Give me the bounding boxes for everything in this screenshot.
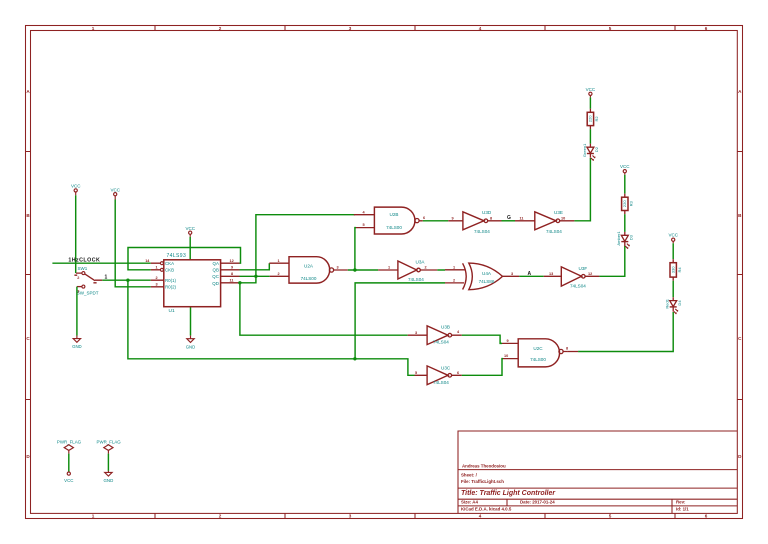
svg-text:74LS00: 74LS00: [301, 276, 317, 281]
svg-text:1: 1: [278, 259, 280, 263]
svg-text:D3: D3: [629, 234, 634, 240]
svg-text:KiCad E.D.A. kicad 4.0.5: KiCad E.D.A. kicad 4.0.5: [461, 507, 512, 512]
svg-text:220: 220: [622, 200, 627, 208]
gate U2A 74LS00 NAND: [269, 257, 348, 283]
svg-text:VCC: VCC: [185, 226, 195, 231]
svg-text:R3: R3: [628, 200, 633, 206]
svg-text:1HzCLOCK: 1HzCLOCK: [68, 258, 100, 264]
svg-text:U4A: U4A: [482, 271, 492, 276]
svg-text:5: 5: [609, 26, 612, 31]
svg-text:13: 13: [549, 272, 553, 276]
wire VCC to R4: [672, 243, 674, 259]
svg-text:10: 10: [561, 216, 565, 220]
svg-text:6: 6: [457, 371, 459, 375]
inverter U3A 74LS04: [378, 260, 437, 283]
node junction QD: [238, 281, 241, 284]
svg-text:74LS04: 74LS04: [433, 339, 449, 344]
svg-text:2: 2: [278, 272, 280, 276]
svg-text:Andreas Theodosiou: Andreas Theodosiou: [462, 463, 506, 468]
gate U2C 74LS00 NAND: [502, 339, 568, 367]
ground GND #PWR10 (flag): [104, 471, 114, 483]
svg-text:Date: 2017-01-24: Date: 2017-01-24: [520, 499, 555, 504]
svg-text:Red1: Red1: [665, 298, 670, 308]
svg-text:A: A: [528, 271, 532, 277]
wire SW1 throw to GND: [76, 287, 78, 336]
svg-text:2: 2: [425, 266, 427, 270]
svg-text:5: 5: [609, 514, 612, 519]
svg-text:4: 4: [479, 26, 482, 31]
svg-text:2: 2: [156, 276, 158, 280]
resistor R2 220: [587, 109, 599, 129]
svg-text:VCC: VCC: [71, 184, 81, 189]
svg-text:SW1: SW1: [78, 266, 88, 271]
wire U1 pin 10 to GND: [190, 307, 192, 336]
LED D3 Amber1: [616, 231, 633, 249]
svg-text:330: 330: [671, 266, 676, 274]
wire XOR out, label A: [519, 275, 543, 277]
resistor R3 220: [622, 194, 634, 215]
svg-text:Rev:: Rev:: [676, 499, 686, 504]
svg-text:10: 10: [504, 354, 508, 358]
node junction bottom row: [353, 357, 356, 360]
wire tap up to U2B pin5: [355, 228, 356, 270]
svg-text:R2: R2: [594, 116, 599, 122]
wire U3F out to amber LED chain: [599, 246, 624, 276]
switch SW1 SW_SPDT: [74, 266, 107, 295]
power VCC #PWR07 amber chain: [620, 164, 630, 175]
svg-text:1: 1: [156, 265, 158, 269]
svg-text:R0(2): R0(2): [165, 285, 177, 290]
svg-text:VCC: VCC: [620, 164, 630, 169]
svg-text:12: 12: [588, 272, 592, 276]
wire PWR_FLAG to GND: [107, 454, 109, 471]
svg-text:GND: GND: [104, 478, 114, 483]
flag PWR_FLAG #FLG02: [97, 440, 122, 454]
svg-text:U3A: U3A: [416, 260, 426, 265]
power VCC #PWR04 above U1: [185, 226, 195, 237]
svg-text:220: 220: [588, 115, 593, 123]
node junction QC branch: [254, 275, 257, 278]
inverter U3C 74LS04: [415, 365, 462, 385]
ground GND #PWR05 below U1: [186, 336, 196, 350]
svg-text:PWR_FLAG: PWR_FLAG: [57, 440, 82, 445]
svg-text:D4: D4: [677, 300, 682, 306]
wire U2B out to U3D: [423, 220, 449, 222]
svg-text:2: 2: [77, 276, 79, 280]
svg-text:9: 9: [231, 265, 233, 269]
flag PWR_FLAG #FLG01: [57, 440, 82, 454]
svg-text:11: 11: [230, 278, 234, 282]
svg-text:74LS04: 74LS04: [570, 283, 586, 288]
svg-text:Size: A4: Size: A4: [461, 499, 478, 504]
svg-text:GND: GND: [186, 344, 196, 349]
wire R3 to D3: [624, 214, 626, 232]
svg-text:R0(1): R0(1): [165, 278, 177, 283]
svg-text:CKA: CKA: [165, 261, 174, 266]
wire QD down to U3B input: [240, 283, 408, 335]
wire SW1 common to R0(1): [102, 279, 151, 281]
svg-text:QC: QC: [212, 274, 219, 279]
wire U3C out to U2C pin10: [462, 359, 503, 376]
gate U2B 74LS00 NAND: [354, 207, 425, 234]
svg-text:1: 1: [92, 514, 95, 519]
svg-text:U3B: U3B: [441, 325, 450, 330]
svg-text:U3F: U3F: [579, 266, 588, 271]
node junction SW/R0(1): [126, 279, 129, 282]
svg-text:8: 8: [490, 216, 492, 220]
svg-text:1: 1: [388, 266, 390, 270]
svg-text:Amber1: Amber1: [616, 231, 621, 246]
svg-text:VCC: VCC: [110, 187, 120, 192]
svg-text:Sheet: /: Sheet: /: [461, 473, 478, 478]
wire U3B out to U2C pin9: [462, 335, 502, 343]
svg-text:File: TrafficLight.sch: File: TrafficLight.sch: [461, 479, 504, 484]
svg-text:3: 3: [349, 514, 352, 519]
power VCC #PWR01: [71, 184, 81, 196]
wire VCC to R3: [624, 175, 626, 194]
svg-text:U2A: U2A: [304, 264, 314, 269]
svg-text:VCC: VCC: [668, 233, 678, 238]
svg-text:3: 3: [511, 272, 513, 276]
svg-text:QD: QD: [212, 281, 219, 286]
svg-text:2: 2: [453, 279, 455, 283]
svg-text:QA: QA: [213, 261, 219, 266]
inverter U3B 74LS04: [408, 325, 462, 345]
svg-text:6: 6: [705, 514, 708, 519]
svg-text:QB: QB: [213, 268, 219, 273]
LED D2 Green1: [582, 143, 599, 161]
svg-text:8: 8: [231, 272, 233, 276]
wire U3E out to green LED chain: [574, 158, 590, 221]
wire QA feedback loop to CKB: [128, 248, 241, 270]
svg-text:8: 8: [566, 347, 568, 351]
svg-text:6: 6: [705, 26, 708, 31]
svg-text:R4: R4: [677, 267, 682, 273]
wire QC to U2A pin2: [240, 275, 270, 277]
wire PWR_FLAG to VCC: [68, 454, 70, 472]
wire XOR pin2 feed: [355, 283, 445, 359]
IC U1 74LS93 counter: [145, 253, 239, 314]
svg-text:3: 3: [337, 266, 339, 270]
power VCC #PWR09 (flag): [64, 472, 73, 483]
wire QB to U2A pin1: [240, 263, 270, 270]
gate U4A 74LS86 XOR: [445, 263, 519, 290]
svg-text:SW_SPDT: SW_SPDT: [77, 291, 99, 296]
svg-text:U3D: U3D: [482, 210, 492, 215]
svg-text:1: 1: [453, 265, 455, 269]
wire QC up to U2B pin4: [256, 215, 355, 277]
svg-text:3: 3: [349, 26, 352, 31]
svg-text:G: G: [507, 215, 511, 221]
svg-text:GND: GND: [72, 344, 82, 349]
power VCC #PWR08 red chain: [668, 233, 678, 244]
svg-text:U3E: U3E: [554, 210, 563, 215]
svg-text:VCC: VCC: [586, 87, 596, 92]
wire VCC to U1 pin 5: [189, 237, 191, 260]
svg-text:4: 4: [479, 514, 482, 519]
svg-text:6: 6: [423, 216, 425, 220]
svg-text:Green1: Green1: [582, 143, 587, 157]
svg-text:2: 2: [219, 26, 222, 31]
wire VCC to SW1 throw: [75, 195, 77, 273]
wire 1HzCLOCK: [52, 262, 150, 264]
wire U3D out, label G: [502, 220, 516, 222]
svg-text:Id: 1/1: Id: 1/1: [676, 506, 689, 511]
node junction U2A out / U2B pin5 tap: [353, 268, 356, 271]
inverter U3E 74LS04: [515, 210, 574, 234]
svg-text:1: 1: [92, 26, 95, 31]
power VCC #PWR06 green chain: [586, 87, 596, 98]
svg-text:74LS04: 74LS04: [433, 380, 449, 385]
wire VCC to R2: [589, 97, 591, 108]
LED D4 Red1: [665, 297, 682, 314]
svg-text:11: 11: [520, 216, 524, 220]
svg-text:12: 12: [230, 259, 234, 263]
svg-text:9: 9: [452, 216, 454, 220]
wire R2 to D2: [589, 129, 591, 144]
wire R4 to D4: [672, 281, 674, 298]
svg-text:74LS04: 74LS04: [546, 229, 562, 234]
svg-text:U1: U1: [169, 308, 175, 314]
resistor R4 330: [670, 259, 682, 281]
wire QD to corner: [240, 276, 256, 283]
inverter U3F 74LS04: [544, 266, 600, 288]
svg-text:U3C: U3C: [441, 365, 451, 370]
wire U3A out to XOR pin1: [437, 269, 445, 271]
wire U2C out to red LED chain: [567, 351, 578, 353]
svg-text:9: 9: [507, 339, 509, 343]
svg-text:U2B: U2B: [390, 212, 399, 217]
svg-text:5: 5: [415, 371, 417, 375]
svg-text:PWR_FLAG: PWR_FLAG: [97, 440, 122, 445]
power VCC #PWR02: [110, 187, 120, 199]
svg-text:5: 5: [363, 223, 365, 227]
wire VCC2 to R0(2): [115, 200, 151, 287]
svg-text:3: 3: [415, 331, 417, 335]
wire U2A out to U3A: [348, 269, 378, 271]
svg-text:Title: Traffic Light Controlle: Title: Traffic Light Controller: [461, 490, 556, 497]
svg-text:2: 2: [219, 514, 222, 519]
svg-text:D2: D2: [594, 146, 599, 152]
ground GND #PWR03: [72, 336, 82, 350]
wire reset net down to bottom row: [128, 280, 415, 375]
svg-text:3: 3: [156, 282, 158, 286]
svg-text:U2C: U2C: [533, 346, 543, 351]
svg-text:74LS04: 74LS04: [408, 277, 424, 282]
svg-text:74LS93: 74LS93: [167, 253, 187, 259]
inverter U3D 74LS04: [448, 210, 501, 234]
svg-text:74LS00: 74LS00: [530, 357, 546, 362]
svg-text:VCC: VCC: [64, 478, 73, 483]
svg-text:74LS04: 74LS04: [474, 229, 490, 234]
svg-text:CKB: CKB: [165, 268, 174, 273]
svg-text:74LS00: 74LS00: [386, 225, 402, 230]
svg-text:74LS86: 74LS86: [479, 279, 495, 284]
